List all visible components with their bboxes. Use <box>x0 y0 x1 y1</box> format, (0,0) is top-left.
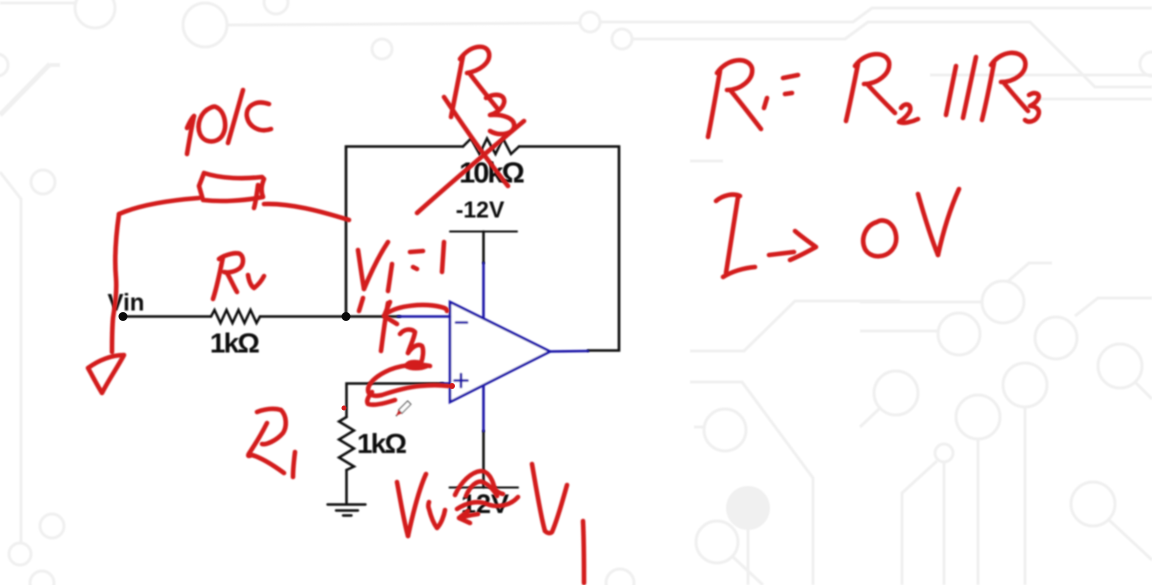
node: red dot at V1 annotation <box>342 406 347 411</box>
wire: feedback box top right + right edge + bottom <box>519 147 619 351</box>
annotation: arrowhead D at Vin <box>88 355 124 393</box>
annotation: hat and strike over 12V <box>455 471 503 495</box>
op-amp triangle <box>450 302 550 402</box>
wire: output stub (blue) <box>550 350 588 353</box>
svg-text:1kΩ: 1kΩ <box>357 428 407 459</box>
wire: -12V bar to opamp <box>482 232 485 264</box>
node: Vin terminal dot <box>119 312 128 321</box>
annotation V2 <box>397 482 408 536</box>
annotation V1=1 <box>358 250 364 289</box>
plus sign <box>455 379 468 382</box>
minus sign <box>456 321 467 324</box>
annotation V1 (bottom right) <box>532 464 545 531</box>
svg-text:-12V: -12V <box>456 197 505 223</box>
wire: R1 to ground <box>345 470 348 504</box>
wire: non-inverting input stub (blue) <box>441 382 450 385</box>
wire: Vin to R2 <box>123 315 211 318</box>
wire: inverting input stub (blue) <box>398 315 450 318</box>
annotation: hand-drawn resistor box over wire <box>119 198 199 214</box>
annotation "10K" <box>187 116 194 128</box>
annotation R2 label <box>213 257 223 299</box>
annotation: flourish at non-inverting input <box>406 362 427 368</box>
wire: top supply stub (blue) <box>482 263 485 317</box>
node: red dot at non-inverting input <box>449 383 455 389</box>
+12V supply bar <box>450 487 519 489</box>
resistor R2 1k zigzag <box>211 310 260 323</box>
annotation: squiggle 7 <box>400 330 415 353</box>
resistor R3 10k zigzag <box>463 139 519 155</box>
node: inverting input junction dot <box>342 312 351 321</box>
wire: non-inverting input <box>347 384 444 418</box>
wire: feedback box left+top <box>346 147 463 317</box>
resistor R1 1k vertical zigzag <box>339 417 354 470</box>
svg-text:1kΩ: 1kΩ <box>210 328 260 359</box>
annotation R1 label <box>257 409 286 444</box>
annotation: arrow into inverting input <box>359 298 363 311</box>
wire: opamp to +12V bar <box>482 431 485 488</box>
annotation R3 label + cross <box>451 56 463 117</box>
pencil cursor icon <box>396 401 411 416</box>
-12V supply bar <box>450 231 517 233</box>
ground symbol <box>328 503 366 505</box>
wire: R2 to inverting node <box>260 315 400 318</box>
annotation equation R1 = R2 || R3 <box>708 71 720 137</box>
annotation equation I -> 0V <box>716 195 740 201</box>
annotation: red wire down from 10K to Vin arrow <box>112 214 119 352</box>
wire: bottom supply stub (blue) <box>482 386 485 431</box>
